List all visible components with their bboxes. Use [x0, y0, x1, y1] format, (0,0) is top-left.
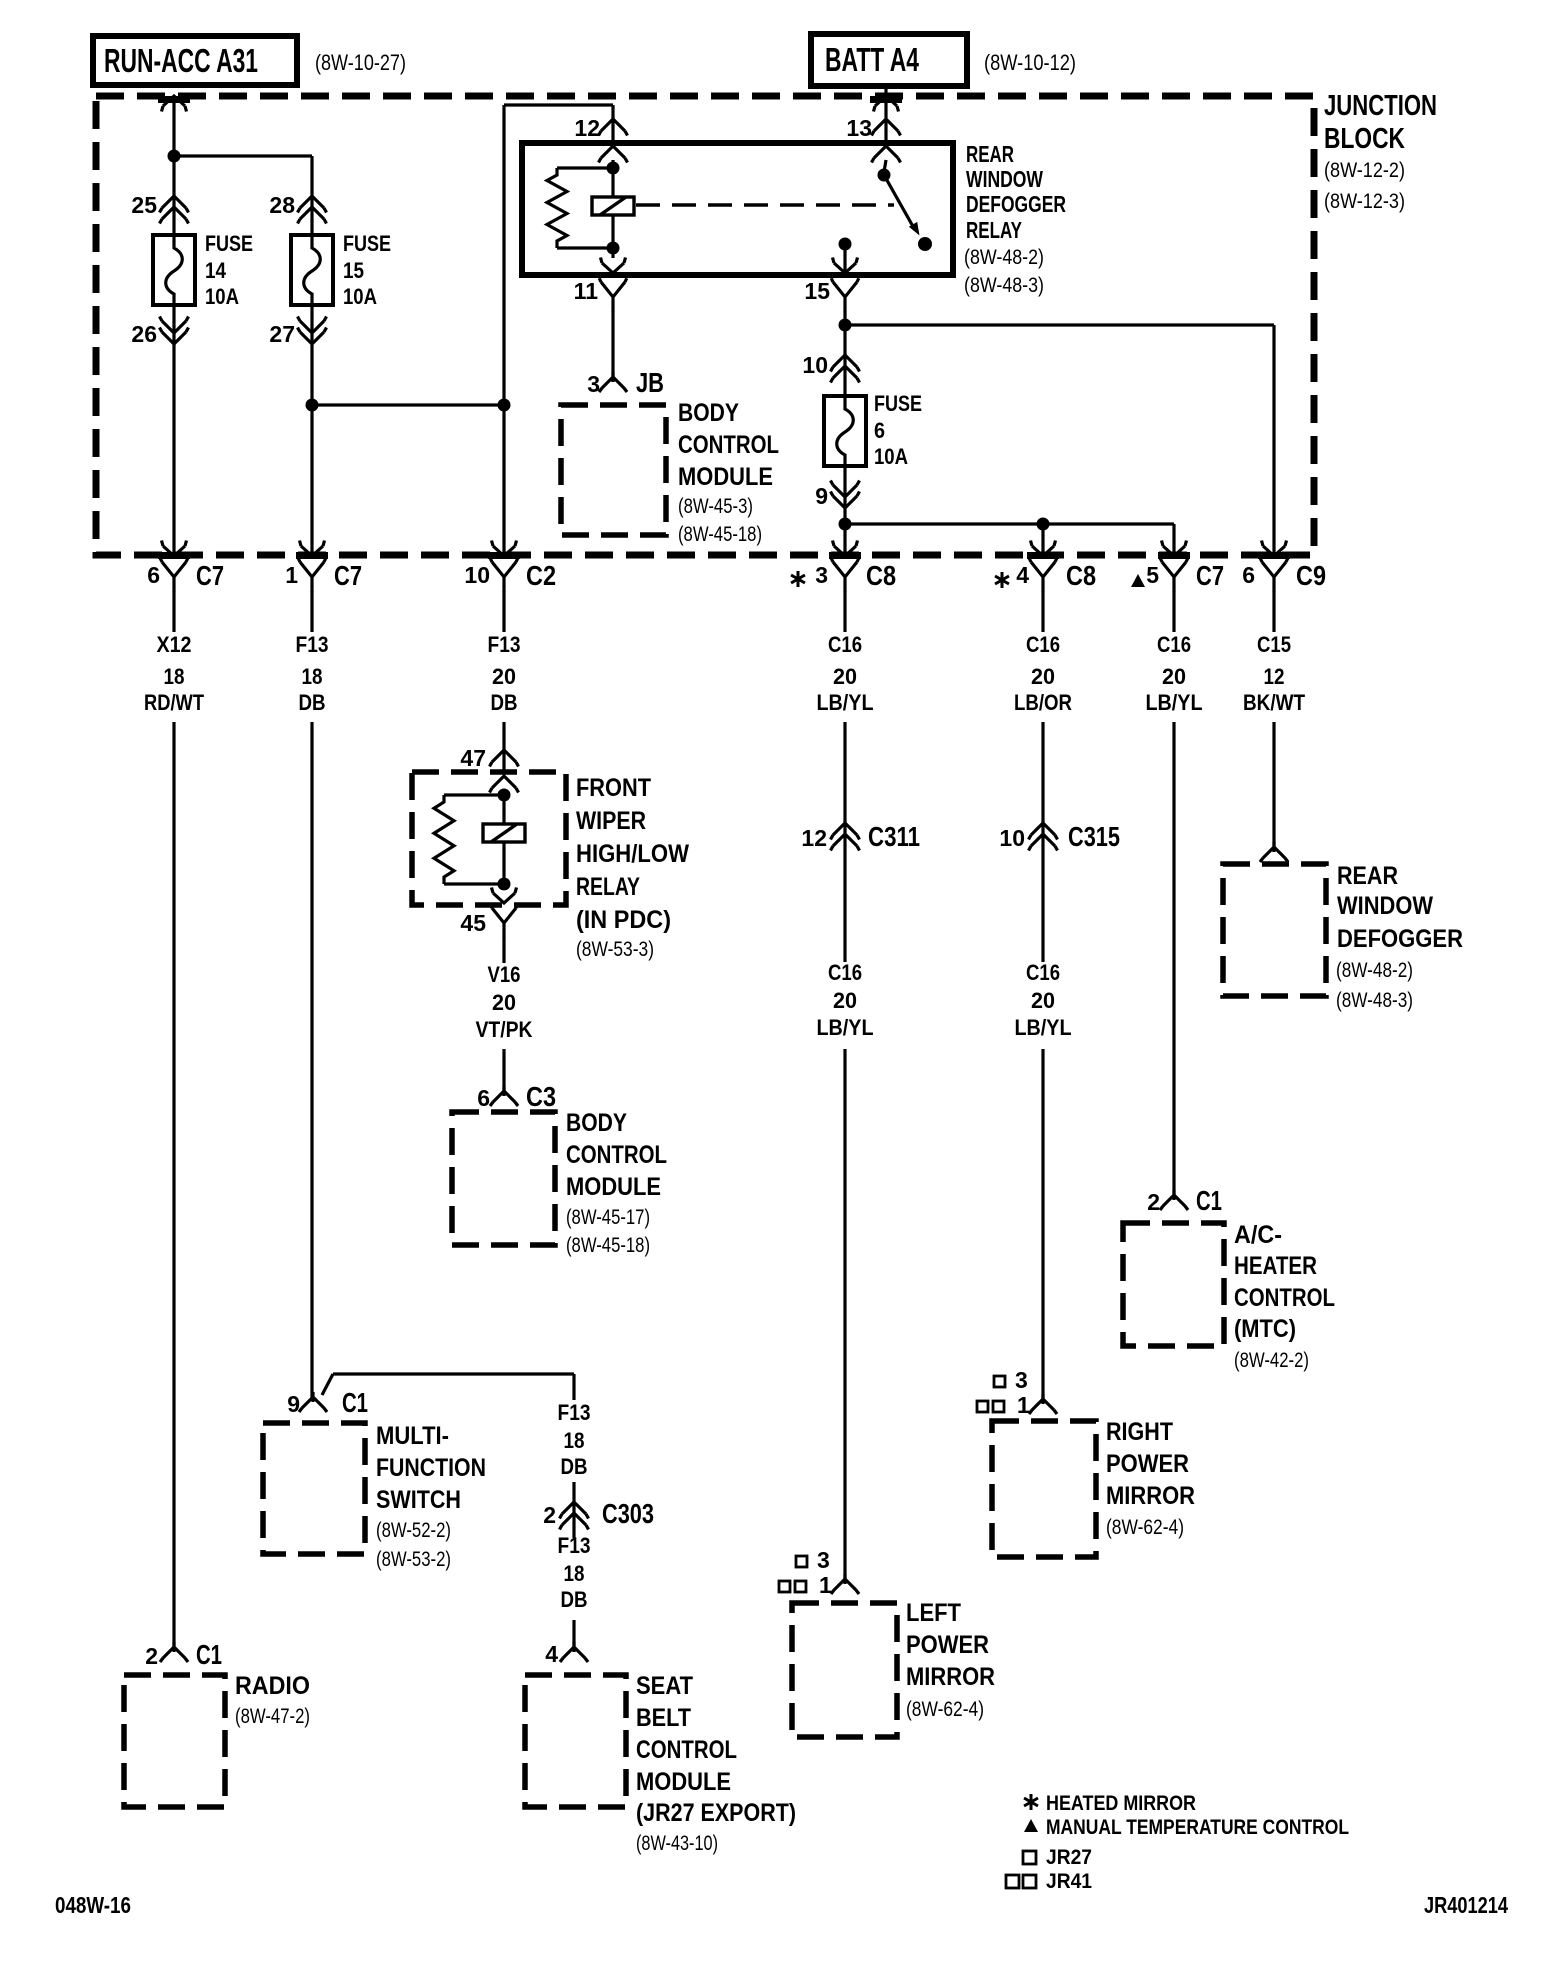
- svg-text:JR401214: JR401214: [1424, 1892, 1508, 1918]
- svg-text:(8W-12-2): (8W-12-2): [1324, 159, 1405, 182]
- svg-text:(8W-47-2): (8W-47-2): [235, 1705, 310, 1728]
- svg-text:1: 1: [819, 1572, 832, 1598]
- svg-text:C9: C9: [1296, 560, 1326, 591]
- module REAR WINDOW DEFOGGER dashed box: [1223, 864, 1326, 996]
- connector pin 47: [490, 750, 519, 767]
- svg-text:C16: C16: [1026, 632, 1060, 657]
- arrow out of relay pin 15: [833, 258, 858, 274]
- connector 12 C311: [831, 823, 860, 840]
- junction dot col2 to col3 tap: [306, 399, 319, 412]
- wire label C16 20 LB/OR: [1014, 632, 1072, 715]
- wire tap to fuse 15: [174, 154, 312, 157]
- connector 3 C8 heated mirror: [831, 558, 859, 592]
- svg-text:18: 18: [564, 1428, 585, 1453]
- svg-text:SWITCH: SWITCH: [376, 1486, 461, 1514]
- svg-text:20: 20: [1031, 988, 1055, 1013]
- svg-text:12: 12: [1264, 664, 1285, 689]
- svg-text:10: 10: [464, 562, 490, 588]
- svg-text:JR41: JR41: [1046, 1870, 1092, 1893]
- svg-text:20: 20: [492, 990, 516, 1015]
- svg-text:F13: F13: [558, 1533, 591, 1558]
- connector 6 C3 body control module: [490, 1086, 518, 1106]
- connector 15 below relay: [831, 278, 859, 312]
- wire branch diagonal from C1: [322, 1374, 333, 1395]
- pin 12 entry arrow inside relay: [599, 146, 628, 163]
- connector pin 25: [160, 196, 189, 213]
- svg-text:(8W-62-4): (8W-62-4): [1106, 1516, 1184, 1539]
- wire below 45: [502, 937, 505, 963]
- connector 4 seat belt control module: [560, 1642, 588, 1662]
- fuse F14 10A: [153, 235, 195, 305]
- svg-text:12: 12: [574, 115, 600, 141]
- module BODY CONTROL MODULE (8W-45-17) dashed box: [452, 1112, 555, 1245]
- svg-text:C16: C16: [828, 632, 862, 657]
- wire col6 long run to A/C heater control: [1172, 722, 1175, 1196]
- svg-text:F13: F13: [558, 1400, 591, 1425]
- connector 1 right power mirror: [1029, 1394, 1057, 1414]
- svg-text:20: 20: [1162, 664, 1186, 689]
- svg-text:C7: C7: [196, 560, 224, 591]
- arrow into junction block (BATT): [874, 96, 899, 112]
- wire seat belt branch vertical: [572, 1374, 575, 1400]
- arrow out of junction block col2: [300, 541, 325, 557]
- svg-text:LEFT: LEFT: [906, 1599, 961, 1627]
- svg-text:47: 47: [460, 745, 486, 771]
- svg-text:(8W-48-2): (8W-48-2): [964, 246, 1044, 269]
- svg-text:C1: C1: [196, 1639, 222, 1670]
- wire wiper relay internal: [502, 790, 505, 884]
- wire col2 long run to multi-function switch: [310, 722, 313, 1398]
- relay switch contact dot: [918, 237, 932, 251]
- svg-text:6: 6: [147, 562, 160, 588]
- svg-text:12: 12: [801, 825, 827, 851]
- arrow out of relay pin 11: [601, 258, 626, 274]
- svg-text:X12: X12: [157, 632, 192, 657]
- wire label C16 20 LB/YL col4 lower: [817, 960, 874, 1040]
- wire RUN-ACC feed into junction block: [172, 96, 175, 235]
- svg-text:MIRROR: MIRROR: [1106, 1482, 1195, 1510]
- wire pin 11 to BCM JB: [611, 311, 614, 382]
- svg-text:LB/YL: LB/YL: [817, 690, 874, 715]
- label FRONT WIPER HIGH/LOW RELAY (IN PDC) (8W-53-3): [576, 774, 689, 961]
- svg-text:(8W-48-2): (8W-48-2): [1336, 959, 1413, 982]
- svg-text:6: 6: [477, 1085, 490, 1111]
- svg-text:10A: 10A: [205, 284, 239, 309]
- svg-text:1: 1: [285, 562, 298, 588]
- svg-text:10A: 10A: [874, 444, 908, 469]
- svg-text:FUSE: FUSE: [874, 391, 922, 416]
- connector 10 C315: [1029, 823, 1058, 840]
- connector 5 C7 manual temp control: [1160, 558, 1188, 592]
- svg-text:RELAY: RELAY: [966, 217, 1022, 243]
- svg-text:C3: C3: [526, 1081, 556, 1112]
- label MULTI-FUNCTION SWITCH: [376, 1422, 486, 1571]
- module LEFT POWER MIRROR dashed box: [792, 1603, 897, 1737]
- svg-text:DB: DB: [299, 690, 326, 715]
- svg-text:C2: C2: [526, 560, 556, 591]
- svg-text:LB/OR: LB/OR: [1014, 690, 1072, 715]
- wire top link to relay pin 12: [504, 103, 613, 106]
- svg-text:9: 9: [287, 1391, 300, 1417]
- module A/C-HEATER CONTROL dashed box: [1123, 1223, 1224, 1346]
- wiper relay coil: [483, 824, 525, 842]
- junction dot wiper coil bottom: [498, 878, 511, 891]
- svg-text:BLOCK: BLOCK: [1324, 123, 1405, 155]
- svg-text:POWER: POWER: [906, 1631, 989, 1659]
- junction block border dash under wire crossings: [158, 100, 1290, 556]
- wire below C2: [502, 591, 505, 632]
- wire tap to C8/C7 columns: [845, 522, 1174, 525]
- pin 47 entry arrow inside wiper relay: [490, 776, 519, 793]
- svg-text:C303: C303: [602, 1498, 654, 1529]
- arrow out of junction block col6: [1162, 541, 1187, 557]
- relay switch arm: [884, 175, 920, 236]
- wire below C7 col1: [172, 591, 175, 632]
- wire branch horizontal to seat belt module: [333, 1372, 574, 1375]
- module BODY CONTROL MODULE (8W-45-3) dashed box: [561, 405, 666, 535]
- svg-text:FRONT: FRONT: [576, 774, 651, 802]
- arrow into junction block (RUN-ACC): [162, 96, 187, 112]
- svg-text:CONTROL: CONTROL: [1234, 1284, 1335, 1312]
- svg-text:MODULE: MODULE: [566, 1173, 661, 1201]
- svg-text:HEATED MIRROR: HEATED MIRROR: [1046, 1792, 1196, 1815]
- wire pin 13 to switch pivot: [884, 160, 886, 172]
- svg-text:FUSE: FUSE: [205, 231, 253, 256]
- svg-text:048W-16: 048W-16: [55, 1892, 131, 1918]
- svg-text:BELT: BELT: [636, 1704, 691, 1732]
- wire below C8 col4: [843, 591, 846, 632]
- svg-text:BK/WT: BK/WT: [1243, 690, 1305, 715]
- wire to C303: [572, 1482, 575, 1538]
- svg-text:CONTROL: CONTROL: [566, 1141, 667, 1169]
- connector 9 C1 multi-function switch: [299, 1392, 327, 1412]
- svg-text:RIGHT: RIGHT: [1106, 1418, 1173, 1446]
- svg-text:C8: C8: [1066, 560, 1096, 591]
- wire relay coil branch: [611, 160, 614, 258]
- svg-text:MODULE: MODULE: [678, 463, 773, 491]
- label FUSE 15 10A: [343, 231, 391, 309]
- svg-text:DB: DB: [561, 1587, 588, 1612]
- svg-text:LB/YL: LB/YL: [817, 1015, 874, 1040]
- wire below C7 col6: [1172, 591, 1175, 632]
- relay actuation dashed link: [636, 203, 894, 206]
- relay REAR WINDOW DEFOGGER solid box: [522, 143, 953, 275]
- module SEAT BELT CONTROL MODULE dashed box: [525, 1675, 626, 1807]
- relay coil: [592, 197, 634, 215]
- svg-text:14: 14: [205, 258, 227, 283]
- wire col4 long run to left mirror: [843, 1049, 846, 1580]
- label A/C-HEATER CONTROL (MTC) (8W-42-2): [1234, 1221, 1335, 1372]
- svg-text:WINDOW: WINDOW: [1337, 892, 1433, 920]
- svg-text:(IN PDC): (IN PDC): [576, 906, 671, 934]
- svg-text:18: 18: [564, 1561, 585, 1586]
- junction dot relay pin 15: [839, 238, 852, 251]
- relay switch pivot dot: [878, 169, 891, 182]
- label REAR WINDOW DEFOGGER RELAY: [964, 141, 1066, 297]
- svg-text:(8W-52-2): (8W-52-2): [376, 1519, 451, 1542]
- junction dot col1/col2 tap: [168, 150, 181, 163]
- svg-text:WIPER: WIPER: [576, 807, 646, 835]
- wire col4 to C311: [843, 722, 846, 962]
- wire col3 to wiper relay: [502, 722, 505, 772]
- wire fuse 15 to connector C7 col2: [310, 305, 313, 556]
- svg-text:C16: C16: [1157, 632, 1191, 657]
- svg-text:VT/PK: VT/PK: [476, 1017, 533, 1042]
- svg-text:20: 20: [833, 988, 857, 1013]
- svg-text:POWER: POWER: [1106, 1450, 1189, 1478]
- svg-text:(8W-42-2): (8W-42-2): [1234, 1349, 1309, 1372]
- relay resistor: [557, 168, 613, 248]
- wire label F13 20 DB col3: [488, 632, 521, 715]
- wire label F13 18 DB col2: [296, 632, 329, 715]
- pin 3 JR27 marker left mirror: [796, 1547, 830, 1573]
- wiper relay resistor: [444, 795, 504, 884]
- svg-text:CONTROL: CONTROL: [678, 431, 779, 459]
- svg-text:BATT A4: BATT A4: [825, 41, 919, 78]
- svg-text:3: 3: [817, 1547, 830, 1573]
- svg-text:C315: C315: [1068, 821, 1120, 852]
- connector 6 C9: [1260, 558, 1288, 592]
- svg-text:C1: C1: [1196, 1185, 1222, 1216]
- svg-text:4: 4: [545, 1641, 558, 1667]
- junction dot mirror feed: [839, 518, 852, 531]
- svg-text:25: 25: [131, 192, 157, 218]
- module RADIO dashed box: [124, 1675, 225, 1807]
- arrow out of junction block col3: [492, 541, 517, 557]
- svg-text:13: 13: [846, 115, 872, 141]
- node BATT A4 feed box: [811, 34, 967, 86]
- svg-text:JR27: JR27: [1046, 1846, 1092, 1869]
- wire fuse 6 to C8: [843, 466, 846, 556]
- wire fuse 14 to connector C7: [172, 305, 175, 556]
- connector 4 C8 heated mirror: [1029, 558, 1057, 592]
- wire label C16 20 LB/YL col6: [1146, 632, 1203, 715]
- svg-text:(JR27 EXPORT): (JR27 EXPORT): [636, 1799, 796, 1827]
- wire col3 main vertical in junction block: [502, 105, 505, 556]
- arrow out of wiper relay pin 45: [492, 888, 517, 904]
- svg-text:MULTI-: MULTI-: [376, 1422, 449, 1450]
- connector 1 C7: [298, 558, 326, 592]
- wire down to 5 C7: [1172, 524, 1175, 556]
- label LEFT POWER MIRROR (8W-62-4): [906, 1599, 995, 1721]
- svg-text:(8W-45-18): (8W-45-18): [678, 523, 762, 546]
- svg-text:C15: C15: [1257, 632, 1291, 657]
- junction dot relay coil bottom: [607, 242, 620, 255]
- pin 1 JR41 marker right mirror: [977, 1392, 1030, 1418]
- wire to seat belt control module: [572, 1620, 575, 1652]
- wire label X12 18 RD/WT: [144, 632, 204, 715]
- module RIGHT POWER MIRROR dashed box: [992, 1421, 1096, 1557]
- connector 1 left power mirror: [831, 1574, 859, 1594]
- svg-text:C7: C7: [334, 560, 362, 591]
- wire label C16 20 LB/YL col5 lower: [1015, 960, 1072, 1040]
- arrow out of junction block col7: [1262, 541, 1287, 557]
- svg-text:45: 45: [460, 910, 486, 936]
- svg-text:(8W-53-3): (8W-53-3): [576, 938, 654, 961]
- svg-text:20: 20: [492, 664, 516, 689]
- wire below C7 col2: [310, 591, 313, 632]
- wire tap to C9 column: [845, 323, 1274, 326]
- svg-text:(MTC): (MTC): [1234, 1315, 1296, 1343]
- connector 10 C2: [490, 558, 518, 592]
- svg-text:RADIO: RADIO: [235, 1672, 310, 1700]
- wire below C8 col5: [1041, 591, 1044, 632]
- label RADIO (8W-47-2): [235, 1672, 310, 1728]
- label BODY CONTROL MODULE (8W-45-3) (8W-45-18): [678, 399, 779, 546]
- svg-text:11: 11: [574, 278, 599, 304]
- label BODY CONTROL MODULE (8W-45-17) (8W-45-18): [566, 1109, 667, 1257]
- svg-text:20: 20: [833, 664, 857, 689]
- svg-text:C16: C16: [828, 960, 862, 985]
- label RIGHT POWER MIRROR (8W-62-4): [1106, 1418, 1195, 1539]
- svg-text:F13: F13: [488, 632, 521, 657]
- legend JR41: [1006, 1870, 1092, 1893]
- wire label C16 20 LB/YL col4: [817, 632, 874, 715]
- connector pin 13: [872, 119, 901, 136]
- svg-text:(8W-43-10): (8W-43-10): [636, 1832, 718, 1855]
- wire label V16 20 VT/PK: [476, 962, 533, 1042]
- fuse F15 10A: [291, 235, 333, 305]
- svg-text:(8W-10-12): (8W-10-12): [984, 50, 1076, 75]
- connector 6 C7: [160, 558, 188, 592]
- svg-text:(8W-45-17): (8W-45-17): [566, 1206, 650, 1229]
- svg-text:MANUAL TEMPERATURE CONTROL: MANUAL TEMPERATURE CONTROL: [1046, 1816, 1349, 1839]
- svg-text:BODY: BODY: [566, 1109, 627, 1137]
- svg-text:18: 18: [164, 664, 185, 689]
- svg-text:MIRROR: MIRROR: [906, 1663, 995, 1691]
- svg-text:SEAT: SEAT: [636, 1672, 693, 1700]
- svg-text:5: 5: [1146, 562, 1159, 588]
- svg-text:DEFOGGER: DEFOGGER: [966, 191, 1066, 217]
- svg-text:(8W-62-4): (8W-62-4): [906, 1698, 984, 1721]
- svg-text:RD/WT: RD/WT: [144, 690, 204, 715]
- svg-text:(8W-45-18): (8W-45-18): [566, 1234, 650, 1257]
- connector 2 C1 A/C heater control: [1160, 1190, 1188, 1210]
- label SEAT BELT CONTROL MODULE (JR27 EXPORT) (8W-43-10): [636, 1672, 796, 1855]
- pin 3 JR27 marker right mirror: [994, 1367, 1028, 1393]
- connector 3 JB body control module: [599, 372, 627, 392]
- connector pin 28: [298, 196, 327, 213]
- pin 1 JR41 marker left mirror: [779, 1572, 832, 1598]
- svg-text:(8W-10-27): (8W-10-27): [315, 50, 406, 75]
- svg-text:HIGH/LOW: HIGH/LOW: [576, 840, 689, 868]
- wire label C15 12 BK/WT: [1243, 632, 1305, 715]
- connector pin 9: [831, 481, 860, 498]
- legend manual temperature control: [1024, 1816, 1349, 1839]
- svg-text:18: 18: [302, 664, 323, 689]
- svg-text:(8W-48-3): (8W-48-3): [1336, 989, 1413, 1012]
- wire tap down to fuse 15: [310, 156, 313, 235]
- svg-text:27: 27: [269, 321, 295, 347]
- svg-text:LB/YL: LB/YL: [1146, 690, 1203, 715]
- svg-text:(8W-48-3): (8W-48-3): [964, 274, 1044, 297]
- connector pin 26: [160, 317, 189, 334]
- svg-text:20: 20: [1031, 664, 1055, 689]
- arrow out of junction block col1: [162, 541, 187, 557]
- svg-text:10: 10: [999, 825, 1025, 851]
- fuse F6 10A: [824, 396, 866, 466]
- svg-text:CONTROL: CONTROL: [636, 1736, 737, 1764]
- svg-text:6: 6: [1242, 562, 1255, 588]
- wire col5 to C315: [1041, 722, 1044, 962]
- junction block dashed outline: [96, 96, 1314, 555]
- wire tap col2 to col3: [312, 403, 504, 406]
- svg-text:C8: C8: [866, 560, 896, 591]
- svg-text:REAR: REAR: [966, 141, 1014, 167]
- junction dot col3: [498, 399, 511, 412]
- arrow out of junction block col4: [833, 541, 858, 557]
- wire down to 4 C8: [1041, 524, 1044, 556]
- junction dot wiper coil top: [498, 789, 511, 802]
- svg-text:C16: C16: [1026, 960, 1060, 985]
- legend heated mirror: [1024, 1792, 1196, 1815]
- wire label F13 18 DB lower seat belt: [558, 1533, 591, 1612]
- svg-text:FUNCTION: FUNCTION: [376, 1454, 486, 1482]
- svg-text:4: 4: [1016, 562, 1029, 588]
- wire BATT A4 into junction block: [884, 86, 887, 143]
- svg-text:15: 15: [804, 278, 830, 304]
- svg-text:A/C-: A/C-: [1234, 1221, 1282, 1249]
- connector 11 below relay: [599, 278, 627, 312]
- svg-text:C1: C1: [342, 1387, 368, 1418]
- connector 2 C1 radio: [160, 1642, 188, 1662]
- svg-text:28: 28: [269, 192, 295, 218]
- junction dot right mirror feed: [1037, 518, 1050, 531]
- svg-text:C311: C311: [868, 821, 920, 852]
- svg-text:JB: JB: [636, 367, 664, 398]
- junction dot relay coil top: [607, 162, 620, 175]
- svg-text:9: 9: [815, 483, 828, 509]
- svg-text:BODY: BODY: [678, 399, 739, 427]
- wire pin 12 into relay: [611, 105, 614, 143]
- svg-text:10A: 10A: [343, 284, 377, 309]
- svg-text:DB: DB: [491, 690, 518, 715]
- svg-text:3: 3: [815, 562, 828, 588]
- wire below C9: [1272, 591, 1275, 632]
- legend JR27: [1023, 1846, 1092, 1869]
- connector 45: [490, 904, 518, 938]
- svg-text:WINDOW: WINDOW: [966, 166, 1043, 192]
- pin 13 entry arrow inside relay: [872, 146, 901, 163]
- label FUSE 14 10A: [205, 231, 253, 309]
- svg-text:FUSE: FUSE: [343, 231, 391, 256]
- svg-text:MODULE: MODULE: [636, 1768, 731, 1796]
- svg-text:JUNCTION: JUNCTION: [1324, 90, 1437, 122]
- svg-text:1: 1: [1017, 1392, 1030, 1418]
- connector pin 10: [831, 355, 860, 372]
- svg-text:(8W-53-2): (8W-53-2): [376, 1548, 451, 1571]
- node RUN-ACC A31 feed box: [93, 36, 297, 85]
- connector pin 27: [298, 317, 327, 334]
- svg-text:6: 6: [874, 418, 885, 443]
- wire col1 long run to radio: [172, 722, 175, 1648]
- label REAR WINDOW DEFOGGER (8W-48-2) (8W-48-3): [1336, 862, 1463, 1012]
- svg-text:2: 2: [1147, 1189, 1160, 1215]
- connector rear window defogger: [1260, 842, 1288, 862]
- svg-text:2: 2: [145, 1643, 158, 1669]
- svg-text:HEATER: HEATER: [1234, 1252, 1317, 1280]
- svg-text:10: 10: [802, 352, 828, 378]
- svg-text:DB: DB: [561, 1454, 588, 1479]
- svg-text:26: 26: [131, 321, 157, 347]
- module MULTI-FUNCTION SWITCH dashed box: [263, 1423, 365, 1554]
- connector 2 C303: [560, 1502, 589, 1519]
- wire col5 run to right mirror: [1041, 1049, 1044, 1400]
- connector pin 12: [599, 119, 628, 136]
- svg-text:3: 3: [1015, 1367, 1028, 1393]
- relay FRONT WIPER HIGH/LOW dashed box: [412, 772, 566, 905]
- svg-text:2: 2: [543, 1502, 556, 1528]
